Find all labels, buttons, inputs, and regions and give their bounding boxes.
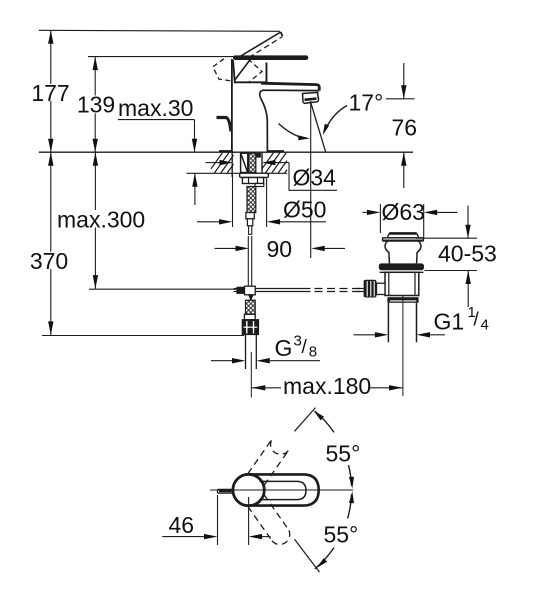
17deg right arc leader from text (325, 106, 348, 132)
dimension 76 extension line top (386, 98, 415, 100)
top view spout stub (218, 489, 234, 493)
top view lever inner outline (259, 481, 306, 499)
drain centerline (402, 296, 404, 396)
top view lever outer outline (250, 474, 319, 505)
dimension max.300 line with arrows (93, 152, 98, 288)
drain bottom compression band (387, 297, 418, 303)
dimension 90 arrows (215, 246, 346, 251)
svg-text:55°: 55° (326, 441, 361, 467)
svg-text:17°: 17° (349, 90, 384, 116)
aerator slot thick line (305, 99, 317, 100)
dimension O50 extension lines (233, 175, 267, 227)
flexible hose in hole (braided) (249, 153, 256, 172)
dimension O34 leader (289, 163, 337, 191)
svg-text:55°: 55° (324, 522, 359, 548)
mounting deck bottom line (187, 172, 288, 174)
dimension G1 1/4 arrows (354, 332, 446, 337)
hole right edge in deck (261, 152, 263, 173)
offset block under nut (255, 184, 264, 187)
dimension 40-53 extension lines (416, 238, 477, 270)
dimension O63 extension lines (380, 204, 423, 238)
mounting nut (242, 178, 263, 184)
drain rod knurled knob (364, 280, 385, 298)
dimension 370 extension line bottom (42, 335, 244, 337)
lever pivot body (233, 60, 266, 82)
svg-text:90: 90 (267, 236, 293, 262)
svg-text:40-53: 40-53 (438, 241, 497, 267)
pop-up rod clamp (237, 286, 255, 300)
dimension O63 arrows (363, 210, 458, 215)
vertical reference line from aerator (310, 101, 312, 258)
svg-text:4: 4 (481, 317, 489, 334)
pop-up pull rod knob behind faucet (217, 118, 232, 132)
deck hatching right band (262, 153, 287, 173)
drain pop-up plug cap (383, 233, 424, 240)
lever pivot dashed rotated square right (248, 59, 262, 82)
svg-text:8: 8 (309, 344, 317, 361)
dimension 76 arrow bottom (401, 152, 406, 188)
threaded stud in hole (241, 153, 248, 172)
svg-text:76: 76 (392, 115, 418, 141)
svg-text:max.30: max.30 (118, 95, 193, 121)
dimension 46 extension lines (218, 495, 249, 545)
dimension G3/8 arrows (211, 358, 320, 363)
second braided hose (246, 300, 256, 314)
dimension O34 arrows at hole (206, 160, 290, 165)
hole left edge in deck (231, 152, 233, 177)
drain body (385, 272, 419, 295)
dimension 40-53 arrows (465, 206, 471, 307)
dimension max.180 arrows (252, 385, 403, 390)
svg-text:/: / (302, 337, 308, 358)
extension line top of handle bar (y=56.6) (88, 56, 234, 58)
svg-text:46: 46 (169, 512, 195, 538)
55deg upper arc with arrows (314, 411, 355, 489)
dimension 76 arrow top (401, 63, 406, 99)
top view dashed lever rotated down 55deg (248, 495, 290, 545)
spout aerator block (303, 93, 319, 104)
drain seal flange ring (379, 263, 424, 270)
55deg extension line upper (295, 408, 316, 432)
faucet body right edge and spout outline (265, 63, 267, 84)
svg-text:139: 139 (77, 92, 115, 118)
pop-up horizontal rod to drain (255, 289, 363, 292)
G3/8 connection nut (242, 320, 258, 335)
svg-text:Ø34: Ø34 (293, 165, 337, 191)
mounting deck top line (39, 151, 413, 152)
dimension O50 arrows (197, 219, 326, 224)
svg-text:177: 177 (31, 80, 69, 106)
small block right of hose in hole (257, 153, 261, 157)
hose end fitting (246, 213, 254, 235)
pop-up vertical rod (248, 236, 251, 286)
washer plate under deck (240, 173, 269, 177)
drain plug flare neck (385, 241, 421, 263)
svg-text:max.300: max.300 (57, 207, 145, 233)
G3/8 pipe walls (246, 335, 257, 370)
pop-up horizontal rod left stub (234, 289, 237, 292)
extension line top of lever (y=30) (39, 30, 280, 31)
dimension 46 arrows (162, 534, 270, 539)
drain tailpipe walls (388, 301, 416, 342)
faucet spout underside and right body edge (260, 90, 320, 152)
svg-text:Ø50: Ø50 (283, 197, 326, 223)
dimension 139 line with arrows (93, 57, 98, 153)
faucet spout top surface (261, 83, 319, 90)
hose ferrule (244, 314, 255, 319)
dimension max.30 leader and arrows (118, 120, 198, 205)
dimension max.300 extension line bottom (89, 288, 237, 290)
faucet centerline below (250, 352, 252, 398)
handle bar horizontal (closed position) (233, 55, 308, 60)
dimension 370 line with arrows (48, 152, 53, 335)
svg-text:G: G (275, 335, 293, 361)
svg-text:370: 370 (30, 248, 68, 274)
55deg lower arc with arrows (315, 491, 354, 569)
flexible braided hose below deck (247, 187, 256, 213)
dimension text G3/8 (275, 333, 318, 362)
lever pivot internal diagonal (235, 59, 251, 81)
handle lever raised tip cap (281, 32, 283, 36)
water stream line 17deg (311, 103, 326, 152)
handle lever raised position solid edge (240, 32, 281, 57)
svg-text:max.180: max.180 (283, 373, 371, 399)
svg-text:/: / (474, 310, 480, 331)
svg-text:G1: G1 (434, 309, 465, 335)
dimension text G1 1/4 (434, 304, 489, 335)
55deg extension line lower (295, 539, 320, 572)
dimension 177 line with arrows (48, 30, 53, 152)
top view handle centerline horizontal (210, 489, 353, 491)
lever pivot dashed rotated square left (213, 59, 232, 81)
svg-text:Ø63: Ø63 (382, 199, 425, 225)
handle lever raised dashed underside (249, 37, 283, 58)
17deg left arc arrow (279, 124, 308, 139)
top view dashed lever rotated up 55deg (248, 439, 288, 485)
deck hatching left band (211, 153, 234, 173)
drain flange underside line (380, 271, 424, 273)
top view cartridge circle (233, 474, 264, 505)
faucet body left edge (231, 59, 233, 152)
